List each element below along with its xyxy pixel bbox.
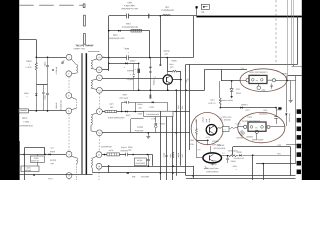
rectifier V908 box [21,166,39,172]
wire right vertical x297 [297,16,299,64]
wire pin17 row out [128,154,153,156]
capacitor C941 series [125,153,127,156]
diode D946 vertical [286,76,288,113]
wire pin5 row [28,110,66,112]
wire A9E1 down to rail [149,31,151,58]
wire OPT feed row [24,147,45,149]
capacitor end marks x160 [159,64,161,66]
transformer secondary pin 8 [97,109,103,115]
svg-text:R(S)C+(M): R(S)C+(M) [135,129,144,132]
svg-text:7.9(W): 7.9(W) [123,47,129,50]
Q901 transistor bold [163,75,172,84]
junction D948 out node [252,154,254,156]
wire pin17 row mid [119,154,126,156]
transformer secondary pin 13 [96,54,102,60]
junction pin14 row nodes [148,132,150,134]
svg-text:FR(W): FR(W) [137,103,142,106]
wire D910 stubs [37,154,39,156]
wire D948 out [242,155,290,157]
component chain x150 [150,58,152,99]
svg-text:B9(M)O: B9(M)O [281,72,288,75]
wire left rail lower [19,141,21,180]
svg-text:IC9C1 (C)9(T)(M)(M)(T): IC9C1 (C)9(T)(M)(M)(T) [249,71,267,74]
wire aux drop x131 [130,119,132,133]
svg-text:C(S)(M): C(S)(M) [137,126,143,129]
dashed link pin16 bottom [98,169,100,180]
wire R920 to cap node [177,71,181,73]
dashed link pin2 pin6 [68,77,70,93]
svg-text:6SD7+0(D): 6SD7+0(D) [119,97,128,100]
transformer secondary pin 11 [97,75,103,81]
svg-text:V9#8: V9#8 [26,167,30,170]
left pillarbox black bar [0,0,19,180]
wire rail riser to B+ [193,16,195,58]
svg-text:+ (M)(W): + (M)(W) [158,122,165,125]
wire IC901 out right [276,79,296,81]
svg-text:(-5(M)): (-5(M)) [23,120,29,123]
capacitor C913 column [43,85,45,93]
transformer secondary pin 14 [97,130,103,136]
ground right [290,99,292,100]
wire out box right [290,147,292,176]
wire lower right row [256,163,296,165]
svg-text:+5(M): +5(M) [137,112,142,115]
relay D910 box [30,156,44,162]
capacitor C954 series on rail [127,55,129,60]
diode D941 open [231,81,233,89]
wire Q902 to R952 [216,127,219,129]
svg-text:a: a [124,67,125,69]
wire aux right short [286,144,302,146]
wire cap node vertical [180,71,182,79]
junction lower right node [262,163,264,165]
terminal left IC902 [244,125,247,128]
svg-text:x: x [29,64,30,66]
diode D948 [239,154,241,156]
wire HOT box top [205,69,247,71]
capacitor C962 [271,84,273,85]
transformer core black bar [86,53,88,174]
wire branch vertical x160 [160,16,162,66]
terminal right IC902 [267,125,270,128]
stub below rail2 [293,64,295,66]
wire bottom left rail [19,174,92,176]
wire mid row [36,84,47,86]
resistor R961 box [107,153,120,156]
resistor R907 box [105,110,117,112]
svg-text:+C912 AB: +C912 AB [55,66,58,75]
svg-text:#T9#9: #T9#9 [247,116,252,119]
svg-text:9(R): 9(R) [110,106,114,109]
junction pin16 nodes [108,165,110,167]
svg-text:(M)(M): (M)(M) [50,150,55,153]
svg-text:C9#1: C9#1 [236,88,240,91]
transformer primary pin 1 [66,54,72,60]
dashed link pin10 pin8 [98,93,100,108]
resistor R910 [35,63,37,70]
capacitor C924 column [133,63,135,74]
wire R949 to diode [236,155,238,157]
capacitor C947 column [276,108,278,117]
wire right vertical x287 [287,0,289,81]
wire Q901 snubber row [167,71,171,73]
wire Q901 emitter [167,84,169,90]
card edge connector dashed strip [297,109,301,114]
node B+ heavy bus line [196,16,301,18]
resistor R949 [229,155,236,157]
wire Q903 emitter out [222,155,230,157]
Q903 transistor bold ellipse [203,153,222,163]
svg-text:C912VB: C912VB [55,102,58,109]
diode D952 [125,62,127,64]
svg-text:D9#1: D9#1 [113,34,118,37]
capacitor C951 series [125,14,128,19]
junction snubber nodes [121,111,123,113]
svg-text:C(M)NF-T 0C1: C(M)NF-T 0C1 [73,47,85,50]
wire right vertical x293 [293,0,295,66]
wire drop x263 [263,164,265,180]
primary winding middle [71,97,76,99]
wire OPT feed drop [44,148,46,155]
transformer primary pin 4 [66,173,72,179]
ground pin14 row [148,133,150,136]
label 1 7V box [222,127,229,132]
wire branch vertical x24 [24,148,26,180]
resistor R947 column [219,81,221,98]
svg-text:LTVQ0(M)-K06: LTVQ0(M)-K06 [161,9,174,12]
wire snubber drop x167 [167,102,169,111]
connector J901 box [201,4,209,9]
diode D945 [240,107,242,109]
right pillarbox black bar [302,0,320,180]
wire bottom rail 2 [186,178,296,180]
svg-text:R9(W): R9(W) [26,60,32,63]
wire HOT box left [204,69,206,90]
junction IC901 out node [287,80,289,82]
secondary winding 8-14 [92,113,97,114]
junction pin9 row nodes [23,154,25,156]
wire bottom rail 1 [186,175,296,177]
wire A9E1 row [109,30,150,32]
wire feed vertical x36 [36,40,38,58]
transformer core gray bar [81,53,83,174]
dashed link pin4 bottom [68,179,70,181]
capacitor C979 box [134,158,146,166]
svg-text:OPT: OPT [170,66,173,69]
wire main rail 200V [109,57,194,59]
transformer primary pin 5 [66,108,72,114]
svg-text:(W)CM(S)F-B1-T(M): (W)CM(S)F-B1-T(M) [121,7,138,10]
black polarity mark [278,107,281,109]
svg-text:OPT: OPT [138,107,141,110]
junction pin10 row nodes [138,89,140,91]
junction primary row nodes [36,57,38,59]
svg-text:LCH(M)(M) 0(C)1: LCH(M)(M) 0(C)1 [19,124,33,127]
wire drop x252 [252,155,254,180]
capacitor C953 electrolytic [138,63,140,68]
junction Q901 right node [180,79,182,81]
svg-text:(W)(U)S(G)B-LF5B: (W)(U)S(G)B-LF5B [109,37,125,40]
svg-text:C4(D)+: C4(D)+ [130,59,136,62]
svg-text:#9#1 x: #9#1 x [48,177,53,180]
diode D951 [118,30,120,32]
secondary winding 13-12 [92,59,97,61]
svg-text:OPT: OPT [50,162,53,165]
ground arrow Q903 [204,166,207,169]
IC901 package box bold [249,75,267,83]
wire Q901 collector drop [166,71,169,75]
primary winding lower [71,156,76,158]
svg-text:C9(M): C9(M) [43,61,46,66]
resistor R931 on x172 [172,152,174,157]
wire primary row [36,57,66,59]
diode D907 [152,101,154,103]
Q902 transistor bold [206,125,217,136]
wire bus vertical x176 [176,90,178,176]
svg-text:x: x [128,52,129,54]
terminal bottom IC902 [255,130,258,133]
secondary winding 11-10 [92,78,97,81]
svg-text:R9#(M): R9#(M) [153,79,156,85]
svg-text:T9C1 FB TRANSF: T9C1 FB TRANSF [75,44,94,47]
capacitor C914 [47,85,49,93]
wire bus vertical x160 [160,111,162,180]
junction grid node [231,80,233,82]
svg-text:R913: R913 [24,92,28,95]
wire bus vertical x166 [166,117,168,181]
junction L901 node [160,15,162,17]
wire IC902 left out [238,126,244,128]
svg-text:#9(C)1: #9(C)1 [22,117,28,120]
svg-text:R9#1: R9#1 [169,63,173,66]
transformer secondary pin 17 [96,152,102,158]
wire rail2 EHT row [186,64,298,66]
IC902 inner terminals [250,126,253,129]
IC902 package box bold [248,122,266,131]
svg-text:1.4(W): 1.4(W) [149,106,155,109]
junction bottom rail node [192,175,194,177]
inductor L910 box [144,111,173,116]
svg-text:x: x [27,96,28,98]
svg-text:(C)9L TN: (C)9L TN [208,102,216,105]
dashed link pin14 pin17 [98,136,100,151]
wire B9MO row [288,75,302,77]
wire Q903 top stub [210,146,212,153]
wire D945 row [220,107,276,109]
wire pin12 row [102,69,109,71]
diode D912 [33,174,35,176]
resistor R951 box [131,29,142,32]
junction Q903 out node [227,155,229,157]
diode D906 [125,111,127,113]
diode D943 [127,172,129,174]
svg-text:·· ··· ··: ·· ··· ·· [22,32,28,34]
chassis boundary connector pin [83,4,85,8]
junction D945 node [275,107,277,109]
wire pin13 out [102,56,109,58]
wire lower return row [93,172,186,174]
svg-text:D9(M): D9(M) [34,157,39,160]
svg-text:R9#7: R9#7 [210,99,214,102]
wire V903 cathode row [196,140,207,142]
dashed divider x276 [275,0,277,64]
wire Q903 base [196,157,203,159]
wire grid feed drop [221,69,223,81]
wire aux row [131,118,144,120]
svg-text:(M): (M) [201,11,204,14]
capacitor C981 column [147,159,150,161]
terminal right [272,79,275,82]
junction cathode node [207,140,209,142]
wire R942 to Q903 base [196,140,198,158]
svg-text:L91(C)0(M)+K06: L91(C)0(M)+K06 [146,113,159,116]
wire bus vertical x185 [185,64,187,175]
svg-text:D95#: D95# [122,93,126,96]
svg-text:R9(T)9: R9(T)9 [164,50,170,53]
junction pin5 row nodes [36,110,38,112]
dashed chassis boundary horizontal [19,4,83,6]
capacitor C948 drop [227,156,229,159]
transformer primary pin 2 [66,71,72,77]
junction pin17 node [104,154,106,156]
secondary winding 17-16 [93,156,97,158]
V903 envelope circle [191,113,223,145]
wire gnd drop right [290,81,292,100]
capacitor C909 [47,57,49,65]
junction C951 stub [148,14,149,19]
wire D952 row [109,63,139,65]
wire HOT box bottom [190,90,205,92]
wire Q903 collector down [212,163,214,166]
diode D913 [49,153,51,155]
dashed link pin5 pin9 [68,114,70,151]
wire IC901 left pin [241,79,246,81]
wire pin14 row [102,132,190,134]
wire pin8 row left [102,111,105,113]
wire L910 out [173,111,190,113]
transformer primary pin 9 [66,151,72,157]
resistor R952 [217,127,222,129]
junction connector node [196,6,198,8]
svg-text:L+4T(b): L+4T(b) [26,66,32,69]
wire connector drop [196,7,198,16]
svg-text:C9C1: C9C1 [127,1,132,4]
schematic background [0,0,320,180]
wire IC901 right pin [267,79,272,81]
wire cathode stub [207,140,209,144]
junction rail nodes [149,57,151,59]
primary winding upper [71,59,76,64]
wire pin10 row [102,90,189,92]
wire R953 to IC902 [236,126,238,129]
resistor R953 [229,127,236,129]
wire top feed from bar [19,39,36,41]
svg-text:4.35μF 200V: 4.35μF 200V [124,4,136,7]
terminal bottom [258,84,260,87]
wire grid feed [221,80,241,82]
junction pin17 out nodes [132,154,134,156]
snubber cap loop [121,102,123,111]
wire out box left [232,147,234,155]
IC902 envelope ellipse [238,112,285,142]
svg-text:(W)#(M): (W)#(M) [50,159,57,162]
transformer secondary pin 12 [96,67,102,73]
wire bus vertical x189 [189,64,191,150]
fuse F901 box [19,109,29,113]
terminal left [246,79,249,82]
wire bus vertical x172 [172,117,174,181]
wire right vertical x291 [291,0,293,64]
wire pin16 row [102,166,193,168]
capacitor C930 on x166 [165,155,167,157]
svg-text:R9(W): R9(W) [236,92,241,95]
arrow terminal D941 [230,96,233,98]
wire Q901 top [167,58,169,72]
junction R947 node [220,107,222,109]
junction lower return nodes [160,172,162,174]
wire pin16 end drop [193,166,195,179]
wire pin17 drop [152,155,154,166]
diode D911 [35,94,37,96]
wire bus vertical x180 [180,80,182,166]
junction x108 nodes [108,30,110,32]
chassis arrow at pin1 [62,60,65,63]
bridge M961 diamond [239,130,244,135]
svg-text:SCD948 9C1: SCD948 9C1 [59,100,62,110]
capacitor C927 column [155,117,157,123]
transformer primary pin 6 [66,93,72,99]
svg-text:R9#7: R9#7 [109,103,113,106]
wire 200V rail thin [109,15,197,17]
svg-text:OTT: OTT [50,147,53,150]
junction L910 out node [176,111,178,113]
wire IC902 right out [270,126,285,128]
wire out box top [233,146,291,148]
wire pin17 row [102,154,107,156]
wire feed vertical x108 [108,16,110,71]
wire pin16 drop [108,166,110,173]
transformer secondary pin 16 [96,163,102,169]
chassis boundary fence segment 2 [84,34,86,45]
svg-text:(C)T(S)X(P)(W) 2B1: (C)T(S)X(P)(W) 2B1 [122,26,138,29]
chassis boundary fence segment 1 [84,15,86,26]
IC901 envelope ellipse [240,69,287,92]
IC901 inner terminals [252,79,255,82]
wire pin8 row mid [117,111,144,113]
diode D909 small [52,69,54,71]
resistor R920 [172,70,178,72]
resistor R942 column [196,120,198,129]
svg-text:L9#1: L9#1 [165,6,169,9]
svg-text:A9E1: A9E1 [126,22,131,25]
transformer secondary pin 10 [97,87,103,93]
wire right vertical long x295 [295,76,297,164]
junction D952 node [138,63,140,65]
wire pin9 row [19,154,66,156]
wire pin11 row [102,78,163,80]
wire Q901 right [173,79,181,81]
